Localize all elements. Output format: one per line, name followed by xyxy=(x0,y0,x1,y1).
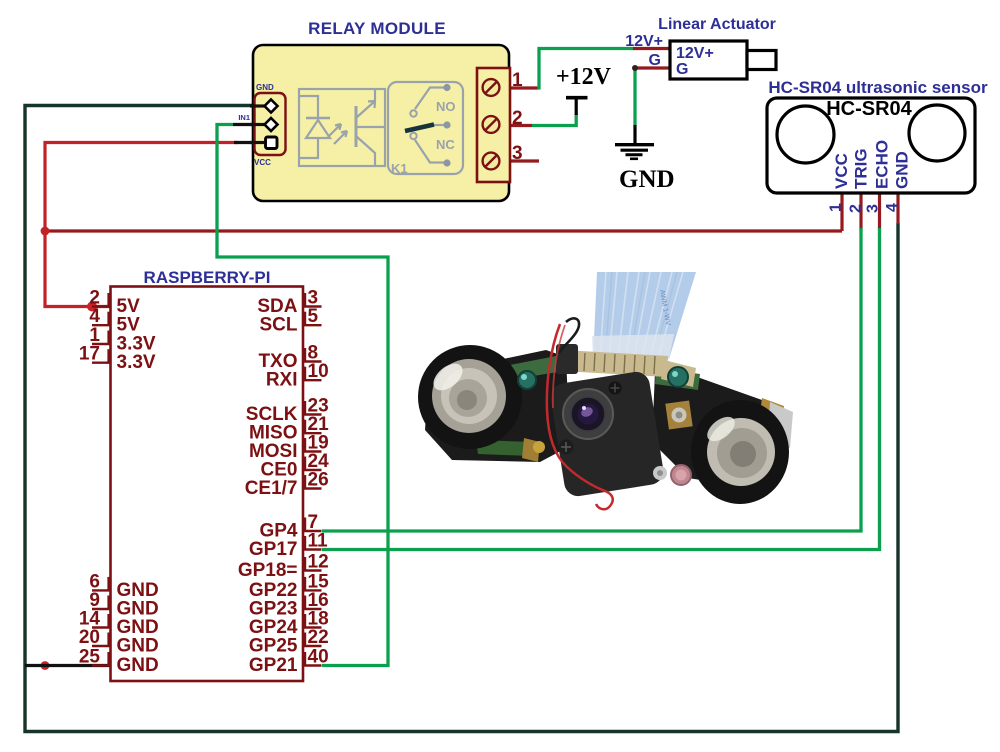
svg-text:HC-SR04 ultrasonic sensor: HC-SR04 ultrasonic sensor xyxy=(768,78,988,97)
relay contact circle bottom xyxy=(410,133,416,139)
relay K1 box xyxy=(388,82,463,174)
camera lens barrel xyxy=(563,389,613,439)
pin 24 CE0 (right leg) xyxy=(303,469,322,471)
right board brass edge xyxy=(759,398,784,430)
left light sensor (teal) xyxy=(518,371,536,389)
relay module body xyxy=(253,45,509,201)
svg-text:2: 2 xyxy=(512,108,523,129)
optocoupler light arrow 1 xyxy=(328,124,341,137)
linear actuator shaft xyxy=(747,51,776,70)
svg-text:GND: GND xyxy=(117,655,159,676)
screw terminal 3 xyxy=(483,153,500,170)
screw terminal 2 xyxy=(483,116,500,133)
svg-text:GP18=: GP18= xyxy=(238,560,298,581)
svg-text:RASPBERRY-PI: RASPBERRY-PI xyxy=(144,268,271,287)
phototransistor collector xyxy=(356,89,375,118)
pin 21 MISO (right leg) xyxy=(303,432,322,434)
wire: green terminal2 to +12V symbol xyxy=(532,114,576,126)
pin 22 GP25 (right leg) xyxy=(303,645,322,647)
svg-text:NO: NO xyxy=(436,99,456,114)
wire: green GP4 to HC-SR04 TRIG xyxy=(322,228,861,531)
svg-text:4: 4 xyxy=(884,203,901,212)
svg-text:VCC: VCC xyxy=(832,153,851,189)
optocoupler light arrow 2 xyxy=(334,131,347,144)
phototransistor base lead xyxy=(357,126,385,128)
camera ribbon connector dark block xyxy=(556,344,578,374)
svg-text:17: 17 xyxy=(79,344,100,365)
screw terminal block xyxy=(477,68,510,182)
optocoupler U1 box xyxy=(299,89,385,166)
wire: relay terminal 1 dark red xyxy=(494,86,539,89)
pin leg VCC (black) xyxy=(250,141,264,144)
optocoupler LED triangle xyxy=(306,120,330,138)
pin 20 GND (left leg) xyxy=(92,645,111,647)
camera ribbon cable xyxy=(593,272,696,360)
svg-text:GND: GND xyxy=(893,151,912,189)
svg-text:GND: GND xyxy=(256,83,274,92)
svg-text:26: 26 xyxy=(308,470,329,491)
svg-text:RELAY MODULE: RELAY MODULE xyxy=(308,19,446,38)
relay NC contact line xyxy=(415,140,444,163)
svg-text:G: G xyxy=(649,52,661,69)
wire: HC-SR04 pin2 TRIG stub dark red xyxy=(859,193,862,230)
raspberry-pi chip body U2 xyxy=(111,287,304,682)
pin 26 CE1/7 (right leg) xyxy=(303,487,322,489)
svg-text:12V+: 12V+ xyxy=(676,45,714,62)
screw terminal 1 xyxy=(483,79,500,96)
wire: black GND loop (relay GND pin -> left edge -> bottom -> HC-SR04 pin4) xyxy=(25,106,898,732)
wire: HC-SR04 pin1 VCC stub dark red xyxy=(840,193,843,231)
black hookup wire xyxy=(559,318,579,353)
svg-text:+12V: +12V xyxy=(556,64,612,90)
svg-text:3: 3 xyxy=(865,204,882,213)
svg-text:VCC: VCC xyxy=(254,158,271,167)
svg-text:Linear Actuator: Linear Actuator xyxy=(658,16,776,33)
wire: HC-SR04 pin4 GND stub dark red xyxy=(896,192,899,224)
wire: relay terminal 3 stub dark red xyxy=(494,159,539,162)
pin 6 GND (left leg) xyxy=(92,589,111,591)
right IR LED board PCB xyxy=(652,372,790,488)
pin 17 3.3V (left leg) xyxy=(92,362,111,364)
ground bar 2 xyxy=(621,149,649,152)
pin VCC (square) xyxy=(266,137,278,149)
svg-text:K1: K1 xyxy=(391,161,408,176)
relay switch arm xyxy=(405,125,434,132)
right board pink LED xyxy=(671,465,691,485)
svg-text:2: 2 xyxy=(848,204,865,213)
svg-text:25: 25 xyxy=(79,647,101,668)
svg-text:G: G xyxy=(676,61,688,78)
relay contact circle top xyxy=(410,110,416,116)
pin leg GND (black) xyxy=(250,104,264,107)
ground bar 4 xyxy=(630,158,638,161)
right light sensor (teal) xyxy=(668,367,688,387)
pin 12 GP18= (right leg) xyxy=(303,569,322,571)
optocoupler LED cathode bar xyxy=(306,117,330,119)
wire: bright red VCC wire (relay VCC pin -> down -> RPi pin2 5V) xyxy=(45,143,238,307)
svg-text:GND: GND xyxy=(619,166,675,193)
pin leg IN (black) xyxy=(250,123,264,126)
ground bar 1 xyxy=(615,143,654,146)
phototransistor base bar xyxy=(355,106,358,147)
svg-text:40: 40 xyxy=(308,647,329,668)
svg-text:22: 22 xyxy=(308,627,329,648)
left board green strip bottom xyxy=(476,440,532,456)
relay common lead xyxy=(433,124,444,126)
svg-text:IN1: IN1 xyxy=(238,113,250,122)
ground stem xyxy=(633,125,636,144)
pin 5 SCL (right leg) xyxy=(303,324,322,326)
wire: black stub relay IN pin xyxy=(233,123,263,126)
svg-text:1: 1 xyxy=(828,203,845,212)
relay pin dot 2 xyxy=(443,121,450,128)
svg-text:SCL: SCL xyxy=(260,315,298,336)
pin 25 GND (left leg) xyxy=(92,664,111,666)
red hookup wire xyxy=(547,324,613,509)
ribbon stiffener xyxy=(592,334,674,360)
svg-text:GND: GND xyxy=(117,636,159,657)
wire: green from actuator G node down to GND symbol xyxy=(633,68,636,126)
left IR LED board PCB xyxy=(425,350,570,462)
svg-text:GP17: GP17 xyxy=(249,539,298,560)
svg-text:TRIG: TRIG xyxy=(852,148,871,189)
relay NO contact line xyxy=(415,88,444,110)
pin 10 RXI (right leg) xyxy=(303,379,322,381)
svg-text:NC: NC xyxy=(436,137,455,152)
svg-text:ECHO: ECHO xyxy=(873,140,892,189)
pin 14 GND (left leg) xyxy=(92,626,111,628)
pin 7 GP4 (right leg) xyxy=(303,530,322,532)
pin IN (diamond) xyxy=(265,118,278,131)
svg-text:5: 5 xyxy=(308,306,319,327)
+12V symbol bar xyxy=(566,96,588,100)
junction dot at RPi pin2 xyxy=(87,302,97,312)
svg-text:HC-SR04: HC-SR04 xyxy=(826,98,912,120)
wire: green from relay IN pin down and around to RPi GP21 pin40 xyxy=(217,125,388,666)
wire: HC-SR04 pin3 ECHO stub dark red xyxy=(878,193,881,230)
wire: green terminal1 up to actuator 12V+ xyxy=(539,49,634,90)
relay input connector J1 xyxy=(255,93,286,155)
camera board right tan block xyxy=(661,360,696,387)
pin 18 GP24 (right leg) xyxy=(303,626,322,628)
wire: black stub relay VCC pin xyxy=(234,141,263,144)
svg-text:11: 11 xyxy=(308,531,329,552)
junction dot on black wire at (45,665.5) xyxy=(41,661,50,670)
linear actuator body xyxy=(670,41,747,79)
wire: green GP17 to HC-SR04 ECHO xyxy=(322,228,880,550)
right IR LED lens xyxy=(691,400,789,504)
wire: relay terminal 2 dark red xyxy=(494,124,532,127)
left IR LED lens xyxy=(418,345,522,449)
+12V symbol stem xyxy=(575,98,578,115)
right board light edge xyxy=(768,402,793,448)
camera lens glass xyxy=(578,404,599,425)
svg-text:3: 3 xyxy=(512,143,523,164)
svg-text:GP25: GP25 xyxy=(249,636,298,657)
right board green strip xyxy=(655,368,700,390)
relay pin dot 1 xyxy=(443,84,450,91)
pin 19 MOSI (right leg) xyxy=(303,450,322,452)
brass screws xyxy=(665,400,692,429)
transducer right xyxy=(909,105,965,161)
svg-text:10: 10 xyxy=(308,361,329,382)
svg-text:3.3V: 3.3V xyxy=(117,352,156,373)
ground bar 3 xyxy=(626,153,643,156)
svg-text:CE1/7: CE1/7 xyxy=(245,478,298,499)
wire: dark red actuator G stub xyxy=(635,66,670,69)
svg-text:12V+: 12V+ xyxy=(625,33,663,50)
pin 1 3.3V (left leg) xyxy=(92,343,111,345)
pin 15 GP22 (right leg) xyxy=(303,589,322,591)
wire: dark red into actuator 12V+ xyxy=(633,47,670,50)
pin 9 GND (left leg) xyxy=(92,608,111,610)
junction dot on red rail at (45,231) xyxy=(41,227,50,236)
wire: black stub RPi pin25 GND to left black loop xyxy=(25,664,110,667)
pin 3 SDA (right leg) xyxy=(303,305,322,307)
svg-text:RXI: RXI xyxy=(266,370,298,391)
svg-text:20: 20 xyxy=(79,627,100,648)
pin 16 GP23 (right leg) xyxy=(303,608,322,610)
svg-text:12: 12 xyxy=(308,552,329,573)
relay pin dot 3 xyxy=(443,159,450,166)
optocoupler LED leads xyxy=(299,96,318,158)
plate screw xyxy=(609,382,622,395)
HC-SR04 body xyxy=(767,98,975,193)
wire: long dark red 5V rail from left to HC-SR04 VCC xyxy=(45,229,842,232)
phototransistor emitter xyxy=(356,136,375,166)
pin 23 SCLK (right leg) xyxy=(303,413,322,415)
pin 11 GP17 (right leg) xyxy=(303,548,322,550)
pin GND (diamond) xyxy=(265,100,278,113)
pin 2 5V (left leg) xyxy=(92,305,111,307)
svg-text:GP21: GP21 xyxy=(249,655,298,676)
left board green PCB strip xyxy=(505,356,558,380)
pin 40 GP21 (right leg) xyxy=(303,664,322,666)
junction dot at actuator G node xyxy=(632,65,638,71)
camera board connector (tan) xyxy=(562,350,668,377)
camera lens plate xyxy=(549,370,666,498)
svg-text:1: 1 xyxy=(512,70,523,91)
pin 4 5V (left leg) xyxy=(92,324,111,326)
transducer left xyxy=(777,106,834,163)
pin 8 TXO (right leg) xyxy=(303,360,322,362)
